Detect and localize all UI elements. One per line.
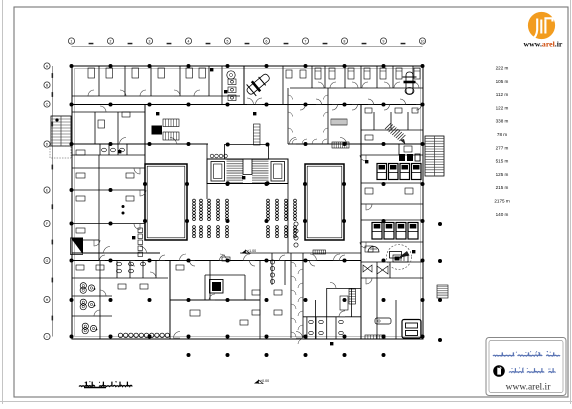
bed row lower — [372, 223, 418, 240]
toilet fixtures — [102, 148, 344, 334]
left courtyard inner — [147, 166, 185, 238]
level marker +0.00 — [254, 380, 259, 384]
ct lamp — [368, 247, 379, 252]
elevator left — [211, 162, 225, 182]
svg-text:215 m: 215 m — [496, 185, 509, 190]
svg-text:I: I — [47, 335, 48, 339]
ct machine — [393, 255, 408, 262]
page bottom edge — [0, 401, 572, 403]
svg-text:3: 3 — [149, 40, 151, 44]
interior walls — [72, 66, 423, 344]
surgical table 1 — [244, 70, 274, 98]
ramp arrow — [400, 139, 406, 145]
svg-text:122 m: 122 m — [496, 105, 509, 110]
svg-text:1: 1 — [71, 40, 73, 44]
svg-text:4: 4 — [188, 40, 190, 44]
comb shelf 1 — [331, 119, 347, 125]
dining tables — [193, 199, 297, 238]
beds top-left band — [88, 68, 206, 78]
svg-text:www.arel.ir: www.arel.ir — [506, 383, 552, 393]
stair treads — [227, 160, 269, 182]
shelf squares column — [138, 228, 143, 257]
stair landing — [243, 160, 252, 175]
top grid line — [72, 46, 423, 48]
svg-text:+0.00: +0.00 — [260, 379, 269, 383]
svg-text:277 m: 277 m — [496, 145, 509, 150]
footer box outer — [486, 338, 566, 396]
kitchen counters — [163, 119, 179, 127]
door bowtie 1 — [363, 265, 372, 272]
outer wall inner — [75, 69, 421, 337]
left grid line — [52, 66, 54, 337]
comb shelf 5 — [349, 289, 356, 304]
right stair annex — [425, 136, 444, 176]
comb shelf 3 — [254, 124, 261, 145]
surgical table 2 — [403, 72, 417, 95]
left stair treads — [51, 119, 71, 143]
svg-text:338 m: 338 m — [496, 119, 509, 124]
svg-text:2: 2 — [110, 40, 112, 44]
chair circle row — [118, 333, 169, 337]
page left edge — [2, 0, 4, 404]
measurement list — [494, 66, 509, 217]
svg-text:112 m: 112 m — [496, 92, 509, 97]
door swing arcs — [88, 82, 422, 338]
svg-text:222 m: 222 m — [496, 66, 509, 71]
right courtyard inner — [307, 166, 342, 238]
svg-text:www.arel.ir: www.arel.ir — [524, 40, 563, 49]
svg-text:+1.00: +1.00 — [247, 249, 256, 253]
arel logo calligraphy — [533, 18, 553, 38]
left stair dashed lobby — [50, 146, 71, 158]
sinks column — [228, 79, 236, 101]
black dots equipment — [122, 205, 125, 208]
svg-text:515 m: 515 m — [496, 159, 509, 164]
ct dashed circle — [387, 245, 412, 270]
surgical lamp — [227, 71, 235, 79]
right courtyard — [305, 164, 344, 240]
door bowtie 2 — [377, 266, 388, 274]
level marker +1.00 — [241, 250, 246, 254]
svg-text:8: 8 — [344, 40, 346, 44]
left stair annex — [51, 116, 71, 146]
comb bottom right — [365, 335, 385, 339]
equipment marks — [118, 68, 415, 345]
svg-text:9: 9 — [383, 40, 385, 44]
stair circles — [210, 154, 227, 158]
stair hall upper walls — [225, 145, 269, 160]
elevator right — [271, 162, 285, 182]
outer wall — [72, 66, 423, 339]
plants — [80, 283, 97, 334]
footer box inner — [489, 341, 563, 393]
right small stair treads — [437, 287, 448, 296]
comb shelf 4 — [313, 250, 326, 254]
arel logo circle — [528, 12, 555, 39]
footer line2 persian — [509, 367, 556, 372]
svg-text:2175 m: 2175 m — [494, 199, 509, 204]
footer logo circle — [493, 365, 505, 377]
page right edge — [570, 0, 572, 404]
column dots — [70, 64, 443, 357]
svg-text:6: 6 — [266, 40, 268, 44]
furniture rects — [76, 70, 418, 325]
left grid bubbles — [44, 63, 53, 340]
svg-text:125 m: 125 m — [496, 172, 509, 177]
svg-text:5: 5 — [227, 40, 229, 44]
left courtyard — [145, 164, 187, 240]
stair hall outline — [207, 159, 288, 184]
nurse station dark — [399, 154, 420, 161]
svg-text:7: 7 — [305, 40, 307, 44]
tv fixture — [210, 280, 224, 294]
svg-text:G: G — [46, 259, 49, 263]
comb shelf 2 — [332, 142, 349, 148]
ramp hatch — [385, 123, 405, 141]
svg-text:78 m: 78 m — [497, 132, 507, 137]
svg-text:10: 10 — [421, 40, 425, 44]
footer line1 persian — [493, 351, 560, 356]
bed row upper — [377, 164, 421, 180]
right stair treads — [425, 139, 444, 173]
svg-text:F: F — [46, 222, 48, 226]
svg-text:140 m: 140 m — [496, 212, 509, 217]
table bottom right — [375, 318, 391, 324]
svg-text:105 m: 105 m — [496, 79, 509, 84]
plan title — [79, 381, 113, 386]
black fixture kitchen — [152, 126, 163, 135]
right small stair box — [437, 285, 448, 298]
black triangle ramp — [71, 238, 84, 255]
patient beds top band — [315, 68, 420, 79]
top grid bubbles — [68, 38, 425, 44]
big sofa fixture — [402, 320, 421, 339]
